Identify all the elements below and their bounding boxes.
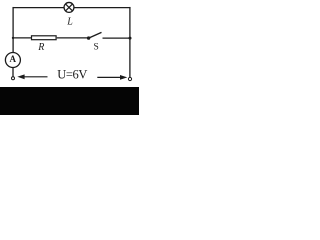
svg-text:A: A [10, 54, 17, 64]
node right junction [129, 37, 132, 40]
switch S [87, 32, 102, 39]
lamp L [64, 2, 74, 12]
wire branch middle [57, 37, 88, 39]
node left junction [12, 37, 14, 39]
resistor R [32, 36, 57, 40]
wire top-left segment [13, 7, 64, 9]
arrow left (to terminal) [17, 74, 47, 79]
svg-text:S: S [94, 43, 99, 53]
svg-text:R: R [37, 42, 44, 53]
wire right vertical [129, 7, 131, 77]
arrow right (to terminal) [97, 75, 127, 80]
wire top-right segment [74, 7, 130, 9]
wire left vertical upper [12, 7, 14, 53]
wire branch left [13, 37, 31, 39]
svg-text:U=6V: U=6V [57, 67, 87, 81]
wire below ammeter [12, 68, 14, 77]
node terminal right [128, 77, 131, 80]
svg-text:L: L [66, 16, 73, 27]
wire branch right [103, 37, 131, 39]
black bar bottom [0, 87, 139, 115]
ammeter A [5, 53, 20, 68]
node terminal left [12, 77, 15, 80]
